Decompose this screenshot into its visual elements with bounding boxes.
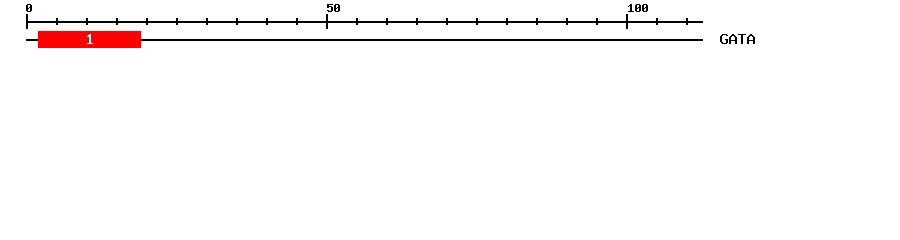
ruler label 100 [628,4,648,12]
ruler label 50 [327,4,340,12]
sequence line [26,39,703,41]
feature label 1 (white) [87,34,93,44]
ruler major tick 0 [26,14,28,29]
ruler major tick 100 [626,14,628,29]
ruler line [26,21,703,23]
ruler minor ticks (every 5 units) [56,18,688,25]
feature box (red) [38,31,141,48]
ruler major tick 50 [326,14,328,29]
track label GATA [720,34,755,44]
ruler label 0 [26,4,32,12]
